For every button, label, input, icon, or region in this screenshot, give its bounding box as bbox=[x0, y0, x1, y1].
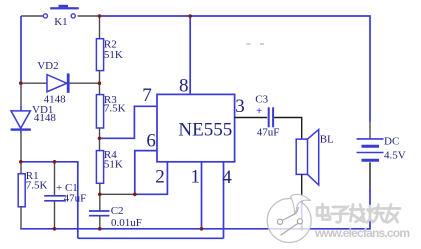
node C1 top bbox=[53, 160, 57, 164]
wire battery top dark bbox=[369, 122, 371, 139]
pin 4 wire bbox=[223, 162, 225, 239]
svg-text:8: 8 bbox=[179, 76, 189, 97]
pin 2 wire bbox=[135, 162, 168, 195]
wire top rail blue bbox=[100, 16, 371, 122]
node speaker bottom bbox=[300, 227, 304, 231]
wire VD1 bottom dark bbox=[20, 134, 22, 162]
svg-text:3: 3 bbox=[235, 96, 245, 117]
node pin1 bottom bbox=[200, 227, 204, 231]
wire node 161.8 horizontal blue bbox=[21, 162, 78, 239]
wire VD2 cathode dark bbox=[70, 82, 100, 84]
pin 8 wire bbox=[189, 16, 191, 94]
svg-text:4.5V: 4.5V bbox=[384, 150, 406, 162]
diode VD1 bbox=[11, 106, 31, 134]
node C2 bottom bbox=[98, 227, 102, 231]
svg-text:NE555: NE555 bbox=[178, 120, 232, 141]
watermark chinese text bbox=[317, 204, 400, 223]
node R1 top bbox=[19, 160, 23, 164]
wire speaker bottom dark bbox=[301, 174, 303, 198]
svg-text:4: 4 bbox=[222, 167, 232, 188]
pin 6 wire bbox=[135, 151, 157, 195]
svg-text:1: 1 bbox=[191, 167, 201, 188]
diode VD2 bbox=[47, 73, 70, 92]
node VD2 right bbox=[98, 81, 102, 85]
svg-text:7.5K: 7.5K bbox=[104, 103, 126, 115]
capacitor C2 bbox=[89, 211, 110, 216]
wire lower rail blue bbox=[78, 237, 224, 239]
wire C2 top dark bbox=[99, 194, 101, 211]
svg-text:2: 2 bbox=[155, 167, 165, 188]
pin 3 wire dark bbox=[235, 117, 268, 119]
wire R2-R3 dark bbox=[99, 71, 101, 95]
resistor R3 bbox=[96, 95, 103, 128]
svg-text:47uF: 47uF bbox=[64, 192, 87, 204]
node VD2 left bbox=[19, 81, 23, 85]
wire battery bottom dark bbox=[369, 162, 371, 187]
svg-text:VD2: VD2 bbox=[37, 60, 58, 72]
svg-text:0.01uF: 0.01uF bbox=[111, 217, 142, 229]
node C1 bottom bbox=[53, 227, 57, 231]
wire VD2 anode dark bbox=[21, 82, 47, 84]
svg-text:47uF: 47uF bbox=[257, 127, 280, 139]
wire battery bottom blue to rail bbox=[20, 187, 370, 228]
wire left vertical dark to VD1 bbox=[20, 83, 22, 105]
wire left vertical blue bbox=[20, 16, 22, 83]
battery DC bbox=[357, 139, 384, 160]
wire top rail left dark to K1 bbox=[21, 15, 43, 17]
svg-text:4148: 4148 bbox=[44, 94, 67, 106]
wire R1 top dark bbox=[20, 162, 22, 174]
node pin6 join bbox=[133, 193, 137, 197]
wire C2 bottom dark bbox=[99, 216, 101, 229]
wire speaker bottom blue bbox=[301, 198, 303, 229]
wire R1 bottom dark bbox=[20, 207, 22, 229]
watermark logo bbox=[267, 194, 311, 242]
pin 1 wire bbox=[201, 162, 203, 229]
resistor R1 bbox=[18, 174, 25, 207]
wire pin2 horizontal dark bbox=[100, 193, 135, 195]
node junction dots bbox=[19, 14, 304, 230]
wire R2 top dark bbox=[99, 16, 101, 39]
svg-text:6: 6 bbox=[146, 131, 156, 152]
wire K1 right to junction bbox=[78, 15, 100, 17]
svg-text:BL: BL bbox=[320, 133, 334, 145]
capacitor C3 bbox=[269, 107, 273, 127]
svg-text:www.elecfans.com: www.elecfans.com bbox=[314, 226, 410, 240]
resistor R4 bbox=[96, 151, 103, 184]
svg-text:7.5K: 7.5K bbox=[26, 180, 48, 192]
op-amp U1 NE555 box bbox=[157, 94, 235, 161]
svg-text:DC: DC bbox=[384, 136, 399, 148]
svg-text:7: 7 bbox=[142, 85, 152, 106]
stray pink marks bbox=[247, 43, 251, 45]
wire R4 bottom dark bbox=[99, 183, 101, 194]
wire R3-R4 dark bbox=[99, 128, 101, 151]
svg-text:C2: C2 bbox=[111, 205, 124, 217]
switch K1 bbox=[43, 5, 78, 18]
wire C3 to speaker dark bbox=[274, 118, 302, 140]
pin 7 wire bbox=[100, 106, 158, 138]
node K1/R2 top bbox=[98, 14, 102, 18]
node R3/R4 pin7 bbox=[98, 137, 102, 141]
svg-text:51K: 51K bbox=[104, 49, 123, 61]
svg-text:K1: K1 bbox=[54, 16, 67, 28]
resistor R2 bbox=[96, 39, 103, 71]
capacitor C1 bbox=[44, 196, 66, 201]
svg-text:4148: 4148 bbox=[34, 112, 57, 124]
node pin8 top bbox=[188, 14, 192, 18]
speaker BL bbox=[296, 130, 319, 186]
svg-text:51K: 51K bbox=[104, 159, 123, 171]
wire C1 top dark bbox=[54, 162, 56, 196]
svg-text:+: + bbox=[256, 105, 262, 117]
node C2 top bbox=[98, 193, 102, 197]
wire C1 bottom dark bbox=[54, 201, 56, 229]
